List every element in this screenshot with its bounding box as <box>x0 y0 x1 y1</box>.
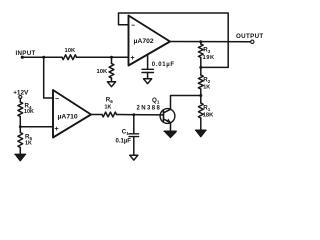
svg-text:0.01µF: 0.01µF <box>152 62 175 68</box>
svg-text:R6: R6 <box>106 97 113 105</box>
supply arrow below C1 <box>130 155 138 160</box>
wire: input node down to uA710 - input <box>44 57 53 98</box>
capacitor C1 stem <box>133 115 135 134</box>
svg-text:−: − <box>55 96 59 103</box>
junction dots <box>21 56 24 59</box>
wire: R1 bottom lead <box>200 118 202 131</box>
wire: R5 bottom lead <box>19 148 21 155</box>
svg-text:R2: R2 <box>203 76 210 84</box>
supply arrow below 10K <box>107 82 115 87</box>
wire: uA702 output to OUTPUT terminal <box>170 41 251 43</box>
wire: emitter down to ground <box>170 123 172 132</box>
op-amp U1 uA702 <box>129 16 171 66</box>
resistor 10K horizontal (input) <box>62 55 77 60</box>
wire: R6 to Q1 base <box>117 114 164 116</box>
ground below Q1 emitter <box>164 130 176 132</box>
transistor Q1 2N388 <box>160 109 175 124</box>
ground below R5 <box>15 153 25 155</box>
svg-text:18K: 18K <box>203 113 214 119</box>
resistor 10K vertical <box>109 64 114 79</box>
svg-text:1K: 1K <box>105 105 112 111</box>
wire: R4 to junction to R5 <box>19 117 21 133</box>
svg-text:+: + <box>55 126 59 133</box>
svg-text:10K: 10K <box>24 109 34 115</box>
svg-text:2N388: 2N388 <box>137 106 162 112</box>
wire: junction to uA710 + input <box>20 126 53 128</box>
svg-text:INPUT: INPUT <box>16 50 36 57</box>
capacitor 0.01uF stem <box>147 55 149 69</box>
wire: vertical 10K to supply arrow <box>111 78 113 82</box>
svg-text:1K: 1K <box>25 141 32 147</box>
wire: +12V rail down to R4 <box>19 98 21 102</box>
svg-text:10K: 10K <box>65 48 76 54</box>
wire: stub node B to vertical resistor <box>111 57 113 63</box>
wire: uA710 output to R6 <box>91 114 102 116</box>
supply arrow below 0.01uF <box>144 79 152 84</box>
svg-text:µA702: µA702 <box>134 38 154 45</box>
capacitor C1 plates <box>129 134 139 137</box>
op-amp U2 uA710 <box>53 90 91 138</box>
wire: cap to supply arrow <box>147 73 149 79</box>
wire: C1 to supply arrow <box>133 137 135 156</box>
capacitor 0.01uF plates <box>142 69 154 72</box>
emitter arrowhead <box>167 119 171 123</box>
svg-text:0.1µF: 0.1µF <box>116 138 132 144</box>
wire: INPUT rail to uA702 + input <box>22 56 128 58</box>
wire: collector up and right to R2/R1 junction <box>171 96 201 110</box>
svg-text:Q1: Q1 <box>152 97 160 105</box>
svg-text:C1: C1 <box>122 129 129 137</box>
wire: feedback loop top <box>119 13 229 67</box>
resistor R1 18K <box>198 103 203 118</box>
resistor R3 19K <box>198 44 203 58</box>
resistor R4 10K <box>18 102 23 117</box>
ground below R1 <box>196 129 206 131</box>
svg-text:+12V: +12V <box>13 89 29 96</box>
wire: R3 to junction <box>200 58 202 76</box>
+12V terminal circle <box>19 96 22 99</box>
svg-text:R3: R3 <box>203 47 210 55</box>
svg-text:10K: 10K <box>97 69 108 75</box>
resistor R2 1K <box>198 75 203 89</box>
resistor R5 1K <box>18 133 23 148</box>
svg-text:OUTPUT: OUTPUT <box>236 33 264 40</box>
OUTPUT terminal circle <box>251 40 254 43</box>
svg-text:19K: 19K <box>203 55 215 61</box>
resistor R6 1K <box>102 112 117 117</box>
svg-text:1K: 1K <box>203 85 210 91</box>
wire: R2 to collector junction <box>200 89 202 103</box>
svg-text:R1: R1 <box>203 104 210 112</box>
svg-text:+: + <box>131 55 135 62</box>
svg-text:µA710: µA710 <box>58 113 78 120</box>
svg-text:−: − <box>131 23 135 30</box>
wire: R3 top lead <box>200 42 202 44</box>
